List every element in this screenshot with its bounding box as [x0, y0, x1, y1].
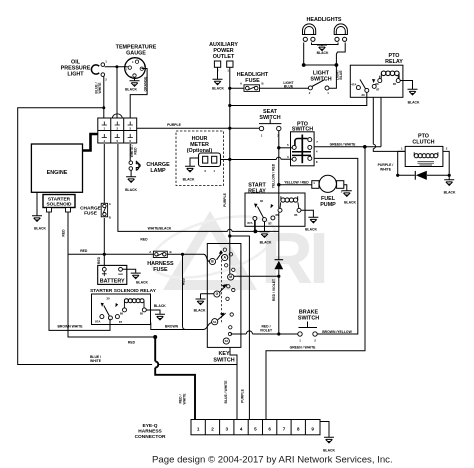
svg-text:HARNESS: HARNESS: [138, 429, 162, 435]
svg-text:87: 87: [119, 320, 123, 324]
svg-text:OUTLET: OUTLET: [213, 54, 235, 60]
svg-text:BLACK: BLACK: [212, 87, 224, 91]
svg-text:ORANGE: ORANGE: [144, 76, 148, 92]
svg-text:S1: S1: [213, 320, 217, 324]
svg-text:BLACK: BLACK: [323, 449, 335, 453]
svg-text:WHITE: WHITE: [98, 82, 102, 94]
svg-text:BATTERY: BATTERY: [100, 279, 125, 285]
svg-text:85: 85: [294, 213, 298, 217]
svg-text:ENGINE: ENGINE: [47, 170, 68, 176]
svg-text:BLUE: BLUE: [339, 70, 343, 80]
svg-text:Page design © 2004-2017 by ARI: Page design © 2004-2017 by ARI Network S…: [152, 455, 393, 466]
svg-text:86: 86: [120, 312, 124, 316]
svg-text:86: 86: [375, 82, 379, 86]
svg-text:BLACK: BLACK: [408, 101, 420, 105]
svg-text:STARTER SOLENOID RELAY: STARTER SOLENOID RELAY: [90, 288, 157, 294]
svg-text:WHITE/BLACK: WHITE/BLACK: [148, 227, 172, 231]
svg-text:RED: RED: [182, 277, 186, 285]
svg-text:BLACK: BLACK: [125, 88, 137, 92]
svg-text:RED: RED: [97, 256, 101, 264]
svg-text:RELAY: RELAY: [385, 59, 403, 65]
svg-text:RED: RED: [134, 147, 138, 155]
svg-text:FUSE: FUSE: [84, 211, 98, 217]
svg-text:2: 2: [211, 426, 214, 431]
svg-text:FUSE: FUSE: [153, 267, 168, 273]
svg-text:BLACK: BLACK: [183, 178, 195, 182]
svg-text:GAUGE: GAUGE: [126, 51, 146, 57]
svg-text:BLACK: BLACK: [34, 227, 46, 231]
svg-text:47A: 47A: [351, 83, 357, 87]
svg-text:SWITCH: SWITCH: [213, 358, 234, 364]
svg-text:PURPLE: PURPLE: [241, 388, 245, 402]
svg-text:BROWN WHITE: BROWN WHITE: [57, 325, 83, 329]
svg-text:S2: S2: [225, 339, 229, 343]
svg-text:BLACK: BLACK: [344, 201, 356, 205]
svg-text:BLACK: BLACK: [260, 241, 272, 245]
svg-text:6: 6: [268, 426, 271, 431]
svg-text:30: 30: [361, 93, 365, 97]
svg-text:85: 85: [140, 312, 144, 316]
svg-text:LIGHT: LIGHT: [67, 72, 84, 78]
svg-text:30: 30: [106, 296, 110, 300]
svg-text:B: B: [169, 250, 171, 254]
svg-text:87: 87: [268, 221, 272, 225]
svg-text:WHITE: WHITE: [90, 359, 102, 363]
svg-text:CLUTCH: CLUTCH: [412, 140, 434, 146]
svg-text:LAMP: LAMP: [150, 168, 166, 174]
svg-text:PURPLE: PURPLE: [223, 192, 227, 206]
svg-text:PURPLE: PURPLE: [167, 123, 181, 127]
svg-text:SWITCH: SWITCH: [259, 115, 280, 121]
svg-text:SWITCH: SWITCH: [292, 127, 313, 133]
svg-text:8: 8: [297, 426, 300, 431]
svg-text:SWITCH: SWITCH: [310, 77, 331, 83]
svg-text:86: 86: [275, 213, 279, 217]
svg-text:85: 85: [393, 82, 397, 86]
svg-text:BLACK: BLACK: [444, 191, 456, 195]
svg-text:BLACK: BLACK: [317, 51, 329, 55]
svg-text:EYE-Q: EYE-Q: [143, 423, 158, 429]
svg-text:WHITE: WHITE: [380, 168, 392, 172]
svg-text:GREEN / WHITE: GREEN / WHITE: [330, 142, 357, 146]
svg-text:SWITCH: SWITCH: [298, 316, 319, 322]
svg-text:BROWN: BROWN: [165, 325, 179, 329]
svg-text:BLUE / WHITE: BLUE / WHITE: [224, 380, 228, 404]
svg-text:G: G: [216, 292, 219, 296]
svg-text:87A: 87A: [247, 221, 253, 225]
svg-text:VIOLET: VIOLET: [260, 329, 273, 333]
svg-text:87: 87: [376, 87, 380, 91]
svg-text:RED: RED: [128, 341, 136, 345]
svg-text:BLUE: BLUE: [284, 85, 294, 89]
svg-text:B: B: [109, 216, 111, 220]
svg-text:4: 4: [240, 426, 243, 431]
svg-text:FUSE: FUSE: [245, 78, 260, 84]
svg-text:B: B: [261, 82, 263, 86]
svg-text:RED: RED: [80, 249, 88, 253]
svg-text:PUMP: PUMP: [320, 202, 336, 208]
svg-text:YELLOW / RED: YELLOW / RED: [284, 181, 309, 185]
svg-text:BLACK: BLACK: [125, 188, 137, 192]
svg-text:PURPLE /: PURPLE /: [378, 163, 394, 167]
svg-text:WHITE: WHITE: [183, 393, 187, 405]
svg-text:RED / VIOLET: RED / VIOLET: [272, 278, 276, 301]
svg-text:GREEN / WHITE: GREEN / WHITE: [290, 346, 317, 350]
svg-text:BLACK: BLACK: [136, 281, 148, 285]
svg-text:S: S: [144, 63, 146, 67]
svg-text:BLACK: BLACK: [305, 228, 317, 232]
svg-text:RED: RED: [140, 237, 148, 241]
svg-text:5: 5: [254, 426, 257, 431]
svg-text:BROWN /YELLOW: BROWN /YELLOW: [322, 330, 352, 334]
svg-text:30: 30: [260, 199, 264, 203]
svg-text:BLACK: BLACK: [194, 309, 206, 313]
svg-text:HEADLIGHTS: HEADLIGHTS: [306, 17, 341, 23]
svg-text:SOLENOID: SOLENOID: [46, 202, 72, 208]
svg-text:KEY: KEY: [218, 351, 229, 357]
svg-text:RED: RED: [62, 229, 66, 237]
svg-text:87A: 87A: [95, 319, 101, 323]
svg-text:YELLOW / RED: YELLOW / RED: [272, 163, 276, 188]
svg-text:M: M: [229, 275, 232, 279]
svg-text:(Optional): (Optional): [187, 148, 213, 154]
svg-text:1: 1: [197, 426, 200, 431]
svg-text:9: 9: [311, 426, 314, 431]
svg-text:BLACK: BLACK: [154, 304, 166, 308]
svg-text:3: 3: [226, 426, 229, 431]
svg-text:CONNECTOR: CONNECTOR: [135, 434, 166, 440]
svg-text:RELAY: RELAY: [248, 189, 266, 195]
svg-text:7: 7: [283, 426, 286, 431]
